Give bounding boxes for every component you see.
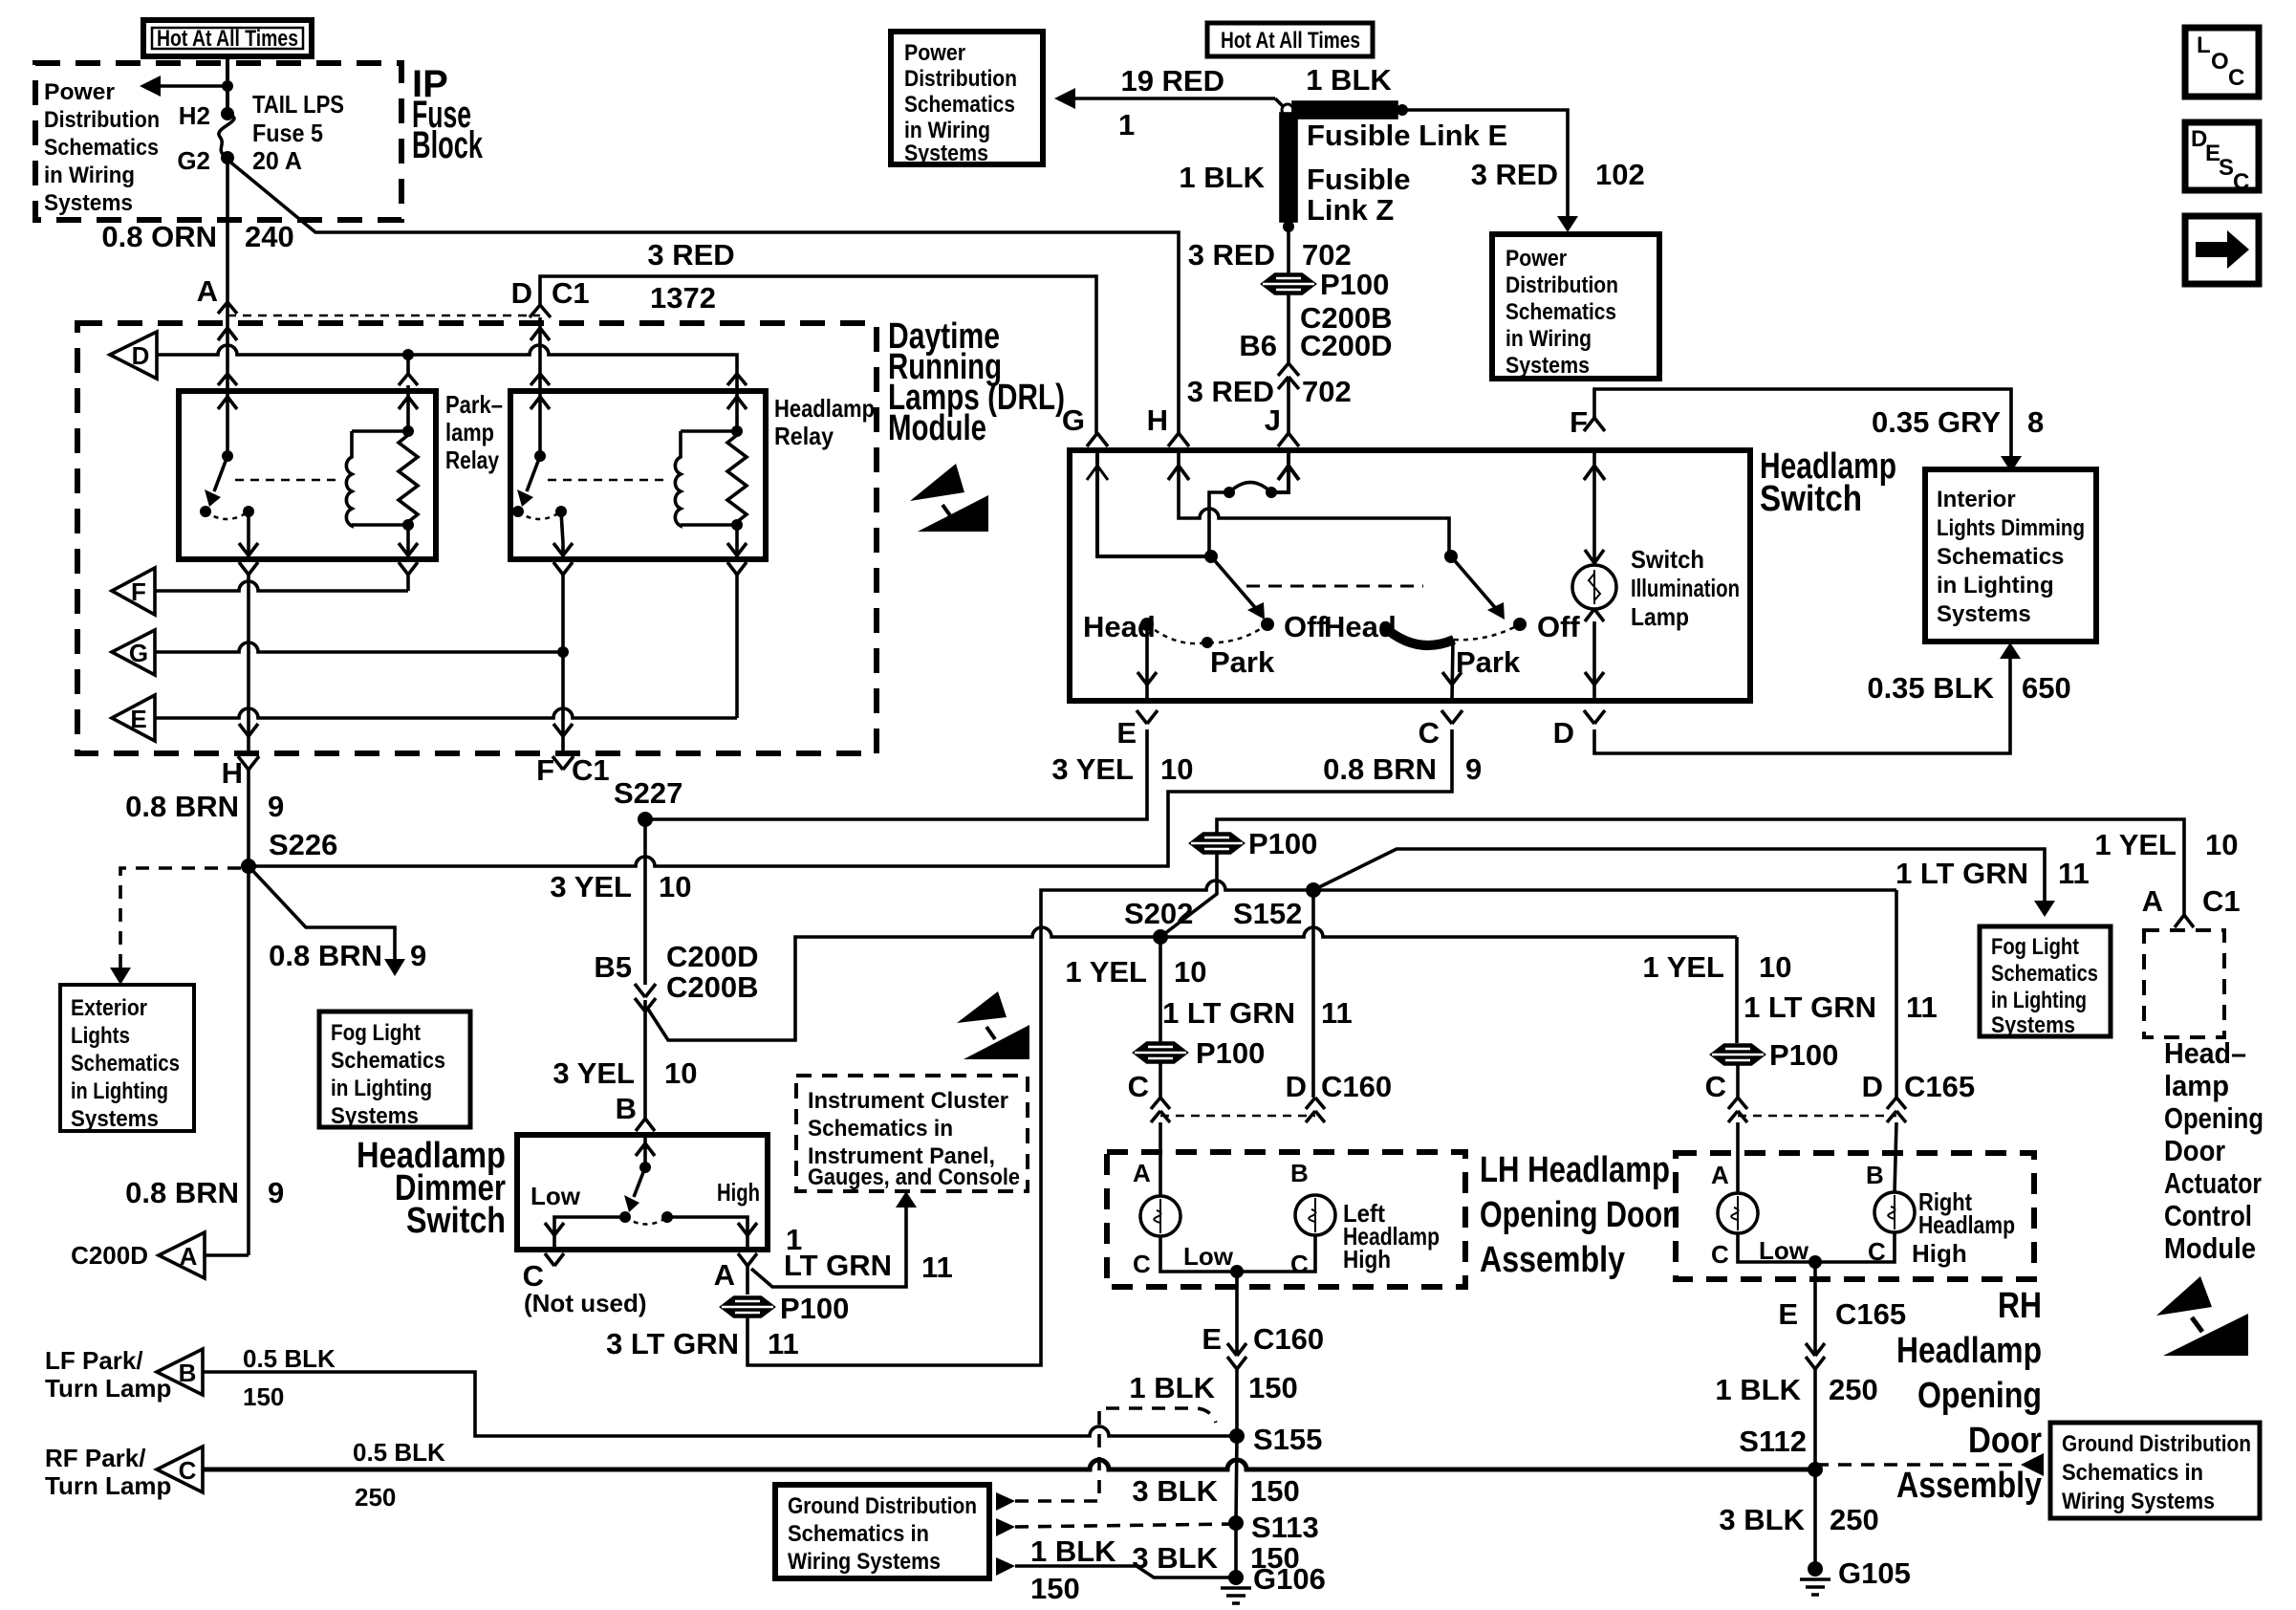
LH ground node <box>1230 1265 1244 1278</box>
svg-text:Turn Lamp: Turn Lamp <box>45 1471 171 1500</box>
svg-text:20 A: 20 A <box>252 146 302 175</box>
svg-text:10: 10 <box>664 1056 697 1090</box>
dashed branch to exterior lights schematics <box>110 868 241 985</box>
splice S226 <box>241 859 256 874</box>
wire from dimmer A through P100 <box>746 1266 749 1295</box>
LOC tab box <box>2185 28 2259 97</box>
svg-text:19 RED: 19 RED <box>1120 64 1224 98</box>
svg-text:250: 250 <box>355 1483 396 1512</box>
DRL title <box>888 316 1065 448</box>
ESD sensitive symbol (instrument cluster) <box>957 991 1029 1059</box>
park relay resistor <box>399 435 418 522</box>
svg-text:Control: Control <box>2164 1199 2252 1232</box>
svg-text:1 BLK: 1 BLK <box>1129 1371 1215 1404</box>
headlamp relay coil rails <box>681 425 743 531</box>
svg-text:O: O <box>2211 49 2229 75</box>
svg-text:250: 250 <box>1829 1373 1878 1406</box>
svg-text:3 YEL: 3 YEL <box>1051 752 1134 786</box>
ground G106 <box>1221 1562 1326 1603</box>
svg-text:C: C <box>1290 1250 1309 1278</box>
grommet P100 above S202 <box>1191 827 1317 860</box>
wire 3 BLK 250 S112 to G105 <box>1719 1469 1878 1569</box>
svg-text:Ground Distribution: Ground Distribution <box>788 1493 977 1519</box>
svg-text:Schematics: Schematics <box>331 1048 445 1074</box>
svg-text:Assembly: Assembly <box>1896 1466 2042 1506</box>
svg-text:S155: S155 <box>1253 1423 1322 1456</box>
svg-text:3 RED: 3 RED <box>1187 375 1274 408</box>
svg-text:C1: C1 <box>2202 884 2241 918</box>
svg-text:Door: Door <box>1968 1421 2042 1461</box>
svg-text:Park: Park <box>1210 645 1275 679</box>
node G2 <box>221 151 234 164</box>
svg-text:E: E <box>1116 716 1137 750</box>
wire 3 RED 102 to power distribution box <box>1402 110 1645 232</box>
svg-text:3 BLK: 3 BLK <box>1132 1541 1218 1575</box>
dashed ground lead 2 to S113 <box>996 1518 1236 1536</box>
dashed lead S112 to ground distribution box <box>1815 1453 2044 1476</box>
headlamp relay coil output to pin E <box>727 525 747 718</box>
svg-text:Power: Power <box>44 79 115 105</box>
arrow to power distribution note <box>140 76 233 97</box>
svg-text:0.8 ORN: 0.8 ORN <box>101 220 217 253</box>
svg-text:C: C <box>1128 1070 1149 1103</box>
svg-text:Systems: Systems <box>44 190 133 216</box>
svg-text:10: 10 <box>659 870 691 903</box>
grommet P100 (dimmer output) <box>722 1292 849 1325</box>
svg-text:C1: C1 <box>572 753 610 787</box>
svg-text:G106: G106 <box>1253 1562 1326 1596</box>
wire G feed to left wiper <box>1087 450 1211 556</box>
Fusible Link Z <box>1179 114 1410 232</box>
wire 3 BLK 150 S155 to S113 <box>1132 1436 1299 1523</box>
svg-text:10: 10 <box>1759 950 1791 984</box>
wire 3 YEL 10 from E to S227 <box>645 729 1193 819</box>
wire 0.8 BRN 9 from C to S226 <box>249 729 1482 866</box>
wire 1 LT GRN 11 S152 to fog light schematics <box>1313 849 2090 917</box>
svg-text:Lights Dimming: Lights Dimming <box>1937 515 2085 541</box>
svg-text:0.8 BRN: 0.8 BRN <box>125 1176 239 1209</box>
svg-text:10: 10 <box>1160 752 1193 786</box>
svg-text:Schematics: Schematics <box>44 135 159 161</box>
Interior Lights Dimming box <box>1925 469 2096 642</box>
wire F 0.35 GRY 8 to interior lights dimming <box>1594 389 2044 472</box>
RH high beam door lamp <box>1815 1122 2015 1268</box>
svg-text:Wiring Systems: Wiring Systems <box>2062 1489 2215 1514</box>
svg-text:C160: C160 <box>1321 1070 1392 1103</box>
svg-text:P100: P100 <box>1196 1036 1265 1070</box>
svg-text:in Lighting: in Lighting <box>331 1076 432 1101</box>
LH connector C C160 <box>1128 1070 1170 1122</box>
C165 connector dashed line <box>1738 1115 1896 1118</box>
svg-text:RF Park/: RF Park/ <box>45 1444 146 1472</box>
headlamp switch pin F <box>1570 405 1605 439</box>
svg-text:L: L <box>2197 33 2211 58</box>
wire H feed to right wiper <box>1168 450 1449 552</box>
svg-text:Switch: Switch <box>406 1201 506 1241</box>
svg-text:1 BLK: 1 BLK <box>1306 63 1392 97</box>
Fog Light Schematics box (left) <box>319 1012 470 1129</box>
svg-text:S: S <box>2219 155 2234 181</box>
svg-text:C: C <box>1711 1240 1729 1269</box>
svg-text:10: 10 <box>1174 955 1206 989</box>
wire 3 BLK 150 S113 to G106 <box>1132 1523 1299 1577</box>
splice S202 <box>1153 929 1168 945</box>
splice S112 <box>1808 1462 1823 1477</box>
svg-text:H2: H2 <box>179 101 210 130</box>
grommet P100 (RH low beam) <box>1712 1038 1838 1072</box>
svg-text:Turn Lamp: Turn Lamp <box>45 1374 171 1403</box>
svg-text:1 LT GRN: 1 LT GRN <box>1895 857 2028 890</box>
svg-text:C: C <box>2228 65 2244 91</box>
DRL pin H connector below box <box>222 756 259 790</box>
svg-text:H: H <box>1147 403 1168 437</box>
headlamp relay switch output to pin F C1 <box>553 511 573 753</box>
svg-text:S227: S227 <box>614 776 682 810</box>
svg-text:Schematics in: Schematics in <box>808 1116 953 1142</box>
svg-text:C200D: C200D <box>71 1241 148 1270</box>
Ground Distribution box (bottom centre) <box>775 1485 989 1578</box>
svg-text:C: C <box>1133 1250 1151 1278</box>
svg-text:Fog Light: Fog Light <box>1991 934 2079 960</box>
svg-text:G105: G105 <box>1838 1556 1911 1590</box>
svg-text:Low: Low <box>1183 1242 1234 1271</box>
triangle pin G (DRL) <box>112 630 155 675</box>
svg-text:8: 8 <box>2027 405 2044 439</box>
svg-text:Interior: Interior <box>1937 487 2016 512</box>
svg-text:J: J <box>1265 403 1281 437</box>
svg-text:11: 11 <box>2058 857 2090 890</box>
svg-text:Fuse 5: Fuse 5 <box>252 119 323 147</box>
svg-text:C: C <box>179 1456 197 1485</box>
svg-text:A: A <box>1711 1161 1729 1189</box>
Power Distribution Schematics box (top middle) <box>891 32 1043 166</box>
wire pin F to park relay coil <box>155 581 408 591</box>
branch from B5 splice to 3 YEL bus <box>647 927 1737 1040</box>
svg-text:Systems: Systems <box>1991 1012 2075 1038</box>
wire 0.8 BRN 9 from DRL pin H down <box>125 768 284 1255</box>
svg-text:Schematics in: Schematics in <box>788 1521 929 1547</box>
svg-text:1 LT GRN: 1 LT GRN <box>1744 990 1876 1024</box>
svg-text:0.5 BLK: 0.5 BLK <box>243 1344 336 1373</box>
svg-text:Systems: Systems <box>1505 353 1590 379</box>
svg-text:H: H <box>222 756 243 790</box>
wire 0.5 BLK 150 from B to S155 <box>203 1344 1237 1436</box>
splice ring <box>1282 104 1293 116</box>
svg-text:LF Park/: LF Park/ <box>45 1346 143 1375</box>
splice S113 <box>1228 1515 1244 1531</box>
DRL pin F C1 connector below box <box>536 753 610 787</box>
svg-text:Systems: Systems <box>331 1103 419 1129</box>
svg-text:lamp: lamp <box>445 418 494 446</box>
svg-text:Relay: Relay <box>445 446 499 474</box>
svg-text:D: D <box>132 341 150 370</box>
svg-text:C: C <box>2233 169 2249 195</box>
RH connector D C165 <box>1862 1070 1976 1122</box>
svg-text:LT GRN: LT GRN <box>784 1249 892 1282</box>
svg-text:G: G <box>1062 403 1085 437</box>
LH connector D C160 <box>1286 1070 1393 1122</box>
wire 1 YEL 10 P100 to actuator module A C1 <box>1217 819 2241 927</box>
svg-text:Lights: Lights <box>71 1023 130 1049</box>
svg-text:Schematics: Schematics <box>71 1051 180 1077</box>
svg-text:Schematics: Schematics <box>1991 961 2098 987</box>
svg-text:Distribution: Distribution <box>44 107 160 133</box>
svg-text:A: A <box>714 1258 735 1292</box>
svg-text:10: 10 <box>2205 828 2238 861</box>
svg-text:Fog Light: Fog Light <box>331 1020 421 1046</box>
svg-text:D: D <box>1286 1070 1307 1103</box>
wire 3 YEL 10 to dimmer switch B <box>552 1000 697 1131</box>
svg-text:C165: C165 <box>1904 1070 1975 1103</box>
svg-text:in Wiring: in Wiring <box>904 118 990 143</box>
svg-text:E: E <box>1778 1297 1798 1331</box>
wire from Hot feed down to fuse H2 <box>226 56 229 114</box>
svg-text:Fusible: Fusible <box>1307 163 1411 196</box>
triangle pin D (DRL) <box>110 332 157 379</box>
svg-text:Exterior: Exterior <box>71 995 147 1021</box>
Power Distribution Schematics box (right) <box>1492 234 1659 379</box>
svg-text:1 YEL: 1 YEL <box>1642 950 1724 984</box>
triangle connector A C200D <box>71 1232 249 1278</box>
svg-text:Power: Power <box>904 40 965 66</box>
splice S227 <box>638 812 653 827</box>
left wiper of headlamp switch <box>1204 550 1274 631</box>
headlamp relay coil <box>675 431 681 526</box>
svg-text:Low: Low <box>531 1182 581 1210</box>
svg-text:Opening: Opening <box>1917 1376 2042 1416</box>
wire J feed through contact to left wiper <box>1209 450 1299 552</box>
wire LH E C160 down <box>1129 1272 1324 1436</box>
svg-text:Power: Power <box>1505 246 1567 272</box>
svg-text:C165: C165 <box>1835 1297 1906 1331</box>
svg-text:C1: C1 <box>552 276 590 310</box>
svg-text:Schematics: Schematics <box>1937 544 2064 570</box>
svg-text:3 RED: 3 RED <box>1188 238 1275 272</box>
svg-text:240: 240 <box>245 220 294 253</box>
Fog Light Schematics box (right) <box>1980 926 2111 1038</box>
wire 3 RED 702 to headlamp switch J <box>1287 377 1290 433</box>
svg-text:C: C <box>1705 1070 1726 1103</box>
wire 0.8 ORN 240 from fuse to DRL pin A <box>226 158 229 303</box>
svg-text:1 BLK: 1 BLK <box>1030 1534 1116 1568</box>
junction on D wire to park relay coil <box>402 349 414 360</box>
wire 1 LT GRN 11 to RH high beam <box>1744 890 1938 1098</box>
IP Fuse Block dashed box <box>35 63 401 220</box>
svg-text:150: 150 <box>1250 1474 1300 1508</box>
svg-text:Schematics in: Schematics in <box>2062 1460 2203 1486</box>
dimmer Low output (not used) <box>523 1217 647 1317</box>
Headlamp Dimmer Switch title <box>357 1136 506 1241</box>
svg-text:Fusible Link E: Fusible Link E <box>1307 119 1507 152</box>
second 0.8 BRN 9 label <box>125 1176 284 1209</box>
svg-text:Illumination: Illumination <box>1631 574 1740 602</box>
svg-text:150: 150 <box>243 1382 284 1411</box>
svg-text:in Lighting: in Lighting <box>1937 573 2054 598</box>
svg-text:0.8 BRN: 0.8 BRN <box>125 790 239 823</box>
IP Fuse Block title <box>412 63 484 166</box>
svg-text:Switch: Switch <box>1760 479 1862 519</box>
svg-text:lamp: lamp <box>2164 1069 2229 1102</box>
svg-text:11: 11 <box>768 1327 799 1360</box>
wire from pin D to relay coils <box>157 345 737 431</box>
svg-text:P100: P100 <box>780 1292 849 1325</box>
svg-text:Headlamp: Headlamp <box>774 394 875 423</box>
svg-text:P100: P100 <box>1769 1038 1838 1072</box>
wire D into headlamp relay switch <box>531 317 550 456</box>
svg-text:G2: G2 <box>177 146 210 175</box>
svg-text:Relay: Relay <box>774 422 834 450</box>
svg-text:S112: S112 <box>1739 1425 1807 1458</box>
svg-text:Module: Module <box>888 408 986 448</box>
svg-text:C200B: C200B <box>666 970 759 1004</box>
svg-text:RH: RH <box>1998 1286 2042 1326</box>
svg-text:702: 702 <box>1302 375 1352 408</box>
diagonal P100 to S202 <box>1160 853 1217 937</box>
wire C output (Park contact) <box>1442 641 1462 701</box>
svg-text:in Wiring: in Wiring <box>1505 326 1592 352</box>
svg-text:Schematics: Schematics <box>904 92 1015 118</box>
svg-text:3 YEL: 3 YEL <box>550 870 632 903</box>
svg-text:Switch: Switch <box>1631 545 1704 574</box>
svg-text:Schematics: Schematics <box>1505 299 1616 325</box>
svg-text:Door: Door <box>2164 1134 2225 1167</box>
svg-text:0.35 GRY: 0.35 GRY <box>1872 405 2001 439</box>
svg-text:11: 11 <box>921 1251 953 1284</box>
RH ground node <box>1809 1255 1822 1269</box>
wire A into park relay switch <box>218 315 237 456</box>
Headlamp Opening Door Actuator Control Module dashed box <box>2144 930 2224 1037</box>
svg-text:S152: S152 <box>1233 897 1302 930</box>
svg-text:1 YEL: 1 YEL <box>2094 828 2177 861</box>
C1 connector dashed line <box>227 315 540 317</box>
mechanical link dashed <box>1246 585 1423 588</box>
svg-text:LH Headlamp: LH Headlamp <box>1480 1150 1670 1190</box>
svg-text:High: High <box>717 1178 760 1207</box>
svg-text:Systems: Systems <box>71 1106 159 1132</box>
svg-text:Park: Park <box>1456 645 1521 679</box>
svg-text:11: 11 <box>1321 996 1353 1030</box>
triangle pin F (DRL) <box>112 568 155 615</box>
park relay coil <box>346 431 352 526</box>
svg-text:High: High <box>1343 1245 1391 1273</box>
ESD sensitive symbol (actuator module) <box>2156 1276 2248 1356</box>
svg-text:Off: Off <box>1537 610 1580 643</box>
svg-text:3 RED: 3 RED <box>647 238 734 272</box>
svg-text:0.8 BRN: 0.8 BRN <box>1323 752 1437 786</box>
svg-text:150: 150 <box>1248 1371 1298 1404</box>
DESC tab box <box>2185 122 2259 195</box>
svg-text:Instrument Cluster: Instrument Cluster <box>808 1088 1008 1114</box>
svg-text:C: C <box>1419 716 1440 750</box>
svg-text:150: 150 <box>1030 1572 1080 1605</box>
svg-text:High: High <box>1912 1239 1967 1268</box>
svg-text:G: G <box>129 639 148 667</box>
svg-text:D: D <box>1553 716 1574 750</box>
svg-text:1 BLK: 1 BLK <box>1179 161 1265 194</box>
triangle connector C RF Park/Turn Lamp <box>45 1444 203 1500</box>
svg-text:Systems: Systems <box>904 141 988 166</box>
Headlamp Switch box <box>1070 450 1750 701</box>
svg-text:Hot At All Times: Hot At All Times <box>1221 28 1360 54</box>
svg-text:P100: P100 <box>1320 268 1389 301</box>
wire D 0.35 BLK 650 to interior lights dimming <box>1553 642 2071 753</box>
connector E below switch <box>1116 710 1158 750</box>
triangle pin E (DRL) <box>112 695 155 741</box>
svg-text:B: B <box>1290 1159 1309 1187</box>
Ground Distribution box (right) <box>2050 1423 2260 1518</box>
svg-text:9: 9 <box>410 939 426 972</box>
svg-text:A: A <box>197 274 218 308</box>
svg-text:0.5 BLK: 0.5 BLK <box>353 1438 445 1467</box>
svg-text:F: F <box>131 577 146 606</box>
svg-text:D: D <box>511 276 532 310</box>
right wiper contacts Head/Park/Off <box>1324 610 1580 679</box>
wire to connector C200B/C200D pin B6 <box>1287 294 1290 363</box>
svg-text:E: E <box>130 705 146 733</box>
DRL module dashed box <box>77 323 877 753</box>
svg-text:Module: Module <box>2164 1231 2256 1265</box>
Headlamp relay box <box>510 391 766 559</box>
right wiper of headlamp switch <box>1444 550 1527 631</box>
svg-text:(Not used): (Not used) <box>524 1289 647 1317</box>
wire 3 RED 702 link Z to P100 <box>1287 227 1290 274</box>
svg-text:11: 11 <box>1906 990 1938 1024</box>
triangle connector B LF Park/Turn Lamp <box>45 1346 203 1403</box>
svg-text:Block: Block <box>412 124 484 166</box>
ground G105 <box>1800 1556 1911 1595</box>
svg-text:S226: S226 <box>269 828 337 861</box>
in-line connector B6 <box>1278 363 1299 389</box>
svg-text:Opening: Opening <box>2164 1101 2264 1135</box>
svg-text:702: 702 <box>1302 238 1352 272</box>
svg-text:3 YEL: 3 YEL <box>552 1056 635 1090</box>
Fusible Link E <box>1293 63 1507 152</box>
svg-text:TAIL LPS: TAIL LPS <box>252 90 344 119</box>
actuator module title <box>2164 1036 2264 1265</box>
Instrument Cluster dashed box <box>796 1076 1028 1191</box>
svg-text:B: B <box>179 1359 197 1387</box>
svg-text:1 BLK: 1 BLK <box>1715 1373 1801 1406</box>
park relay switch output to pin H <box>239 511 258 753</box>
svg-text:Off: Off <box>1284 610 1327 643</box>
switch illumination lamp <box>1572 450 1740 701</box>
svg-text:9: 9 <box>268 790 284 823</box>
wire 1 YEL 10 to RH low beam <box>1642 937 1791 1043</box>
Hot At All Times label box (left) <box>143 20 312 56</box>
svg-text:Opening Door: Opening Door <box>1480 1195 1674 1235</box>
headlamp switch pin J <box>1265 403 1299 446</box>
park relay switch <box>200 450 340 519</box>
svg-text:A: A <box>180 1242 198 1271</box>
svg-text:250: 250 <box>1830 1503 1879 1536</box>
dimmer switch wiper <box>531 1135 760 1225</box>
svg-text:1 LT GRN: 1 LT GRN <box>1162 996 1295 1030</box>
svg-text:Wiring Systems: Wiring Systems <box>788 1549 941 1575</box>
LH high beam door lamp <box>1237 1159 1440 1278</box>
left wiper contacts Head/Park/Off <box>1083 610 1327 679</box>
LH Headlamp Opening Door Assembly dashed box <box>1107 1152 1465 1287</box>
headlamp switch pin H <box>1147 403 1189 446</box>
svg-text:3 BLK: 3 BLK <box>1719 1503 1805 1536</box>
connector into headlamp relay (coil side) <box>727 374 747 409</box>
svg-text:Systems: Systems <box>1937 601 2031 627</box>
wire 19 RED 1 with arrow to power distribution box <box>1054 64 1284 141</box>
headlamp relay switch <box>512 450 669 519</box>
svg-text:B6: B6 <box>1239 329 1277 362</box>
dimmer High output pin A <box>667 1217 757 1292</box>
wire 1 LT GRN 11 S152 to LH high beam <box>1162 890 1353 1098</box>
svg-text:Lamp: Lamp <box>1631 602 1689 631</box>
